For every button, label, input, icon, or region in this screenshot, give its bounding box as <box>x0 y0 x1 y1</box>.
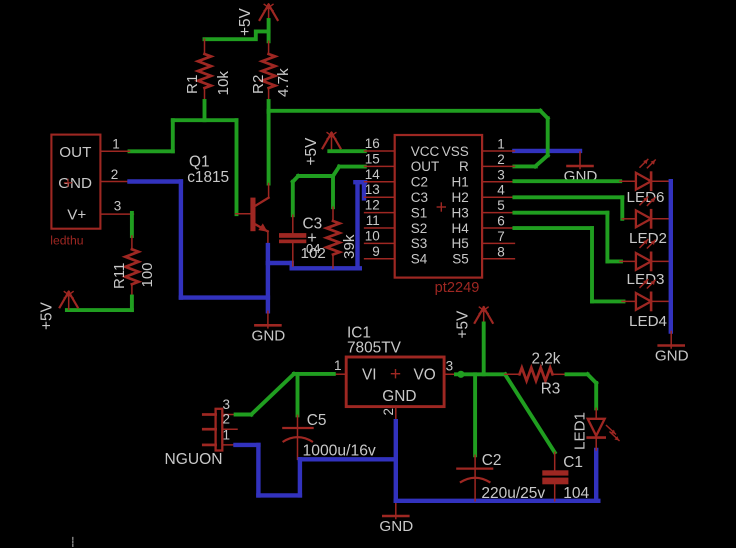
pin 2 pt2249 (right) <box>482 165 515 167</box>
pin 1 IC1 <box>334 373 346 375</box>
LED3 <box>620 260 636 262</box>
pin 1 NGUON stub <box>222 444 237 446</box>
ground GND (bottom) <box>395 502 397 519</box>
svg-text:104: 104 <box>563 485 589 502</box>
svg-text:S2: S2 <box>411 221 428 236</box>
plus mark pt2249 <box>437 206 445 208</box>
svg-text:S5: S5 <box>452 252 469 267</box>
pin 2 ledthu <box>100 181 129 183</box>
svg-text:H2: H2 <box>452 190 469 205</box>
svg-text:100: 100 <box>139 262 156 287</box>
svg-text:VO: VO <box>414 367 436 384</box>
svg-text:C5: C5 <box>307 412 327 429</box>
junction dot <box>457 371 464 378</box>
pin 2 NGUON pad <box>203 428 215 431</box>
svg-text:10: 10 <box>365 228 380 243</box>
svg-text:R2: R2 <box>250 75 267 94</box>
svg-text:C2: C2 <box>411 175 428 190</box>
pin 3 IC1 <box>444 373 459 375</box>
svg-text:GND: GND <box>655 348 689 365</box>
wire pin3 to LED6 <box>514 179 620 183</box>
svg-text:H4: H4 <box>452 221 470 236</box>
svg-text:1: 1 <box>334 358 342 373</box>
wire node to C2 <box>473 374 477 455</box>
wire ledthu pin2 to emitter net (blue) <box>130 179 181 183</box>
svg-text:C2: C2 <box>482 452 502 469</box>
svg-text:GND: GND <box>382 388 416 405</box>
wire emitter bus to C3/39k/pins13-14 (blue) <box>268 261 292 265</box>
resistor R3 2,2k <box>505 373 520 375</box>
LED6 <box>620 180 636 182</box>
svg-text:VI: VI <box>362 367 377 384</box>
svg-text:7: 7 <box>497 229 505 244</box>
wire Q1 emitter to GND (blue) <box>266 245 270 311</box>
svg-text:11: 11 <box>366 213 380 228</box>
wire LED cathodes to GND (blue) <box>669 181 673 331</box>
svg-text:H5: H5 <box>452 236 469 251</box>
pin 9 pt2249 (left) <box>365 258 395 260</box>
pin 16 pt2249 (left) <box>365 150 395 152</box>
svg-text:3: 3 <box>497 167 505 182</box>
svg-text:6: 6 <box>497 214 505 229</box>
svg-text:2: 2 <box>497 152 505 167</box>
svg-text:4.7k: 4.7k <box>275 68 292 97</box>
svg-text:9: 9 <box>372 244 380 259</box>
svg-text:S3: S3 <box>411 236 428 251</box>
svg-text:c1815: c1815 <box>187 169 229 186</box>
LED4 <box>622 300 636 302</box>
svg-text:16: 16 <box>365 136 380 151</box>
wire NGUON pin3 to IC1 pin1 <box>236 413 252 417</box>
wire pin4 to LED2 <box>514 195 622 199</box>
wire IC1 pin3 node <box>456 372 505 376</box>
pin 3 NGUON pad <box>203 413 215 416</box>
wire pin6 to LED4 <box>514 226 592 230</box>
svg-text:R: R <box>459 159 469 174</box>
svg-text:4: 4 <box>497 183 505 198</box>
wire node to C1 (diagonal) <box>505 374 555 452</box>
svg-text:R1: R1 <box>184 75 201 94</box>
wire NGUON pin1 to bottom bus (blue) <box>236 443 259 447</box>
svg-text:pt2249: pt2249 <box>435 280 480 296</box>
svg-text:OUT: OUT <box>411 159 440 174</box>
svg-text:H1: H1 <box>452 175 469 190</box>
svg-text:12: 12 <box>365 198 380 213</box>
power +5V symbol (left) <box>68 293 70 310</box>
wire ledthu pin3 to R11 <box>130 213 134 236</box>
pin 1 NGUON pad <box>203 444 215 447</box>
pin 14 pt2249 (left) <box>365 181 395 183</box>
svg-text:LED1: LED1 <box>572 412 589 450</box>
resistor R1 10k <box>204 39 206 54</box>
svg-text:1: 1 <box>112 137 120 152</box>
connector J1 ledthu body <box>51 135 100 229</box>
wire R2 bottom to Q1 collector <box>267 111 271 184</box>
svg-text:ledthu: ledthu <box>50 234 83 248</box>
wire R2 bottom node to pt2249 pin2 (long top run) <box>267 101 271 112</box>
svg-text:39k: 39k <box>341 234 358 259</box>
svg-text:1000u/16v: 1000u/16v <box>303 443 376 460</box>
pin 5 pt2249 (right) <box>482 212 515 214</box>
wire R1 bottom to Q1 base and ledthu pin1 <box>203 101 207 120</box>
wire pt2249 pin15 to C3/39k <box>339 165 365 169</box>
svg-text:+5V: +5V <box>39 301 56 330</box>
power +5V supply symbol (top) <box>268 6 270 23</box>
svg-text:C3: C3 <box>303 216 323 233</box>
power +5V symbol (IC1 output) <box>483 308 485 325</box>
svg-text:2: 2 <box>111 167 119 182</box>
svg-text:V+: V+ <box>67 207 86 224</box>
ground GND (Q1 emitter) <box>267 311 269 328</box>
svg-text:OUT: OUT <box>59 144 91 161</box>
wire IC1 pin2 to GND (blue) <box>394 421 398 501</box>
wire +5V to output node <box>482 324 486 375</box>
svg-text:1: 1 <box>497 137 505 152</box>
capacitor C3 102 <box>292 215 294 233</box>
svg-text:C3: C3 <box>411 190 428 205</box>
pin 11 pt2249 (left) <box>365 227 395 229</box>
frame origin mark <box>72 538 74 540</box>
pin 2 IC1 <box>395 407 397 422</box>
pin 1 ledthu <box>100 150 129 152</box>
wire to C5 top <box>296 374 300 416</box>
origin cross ledthu <box>65 182 72 184</box>
svg-text:VCC: VCC <box>411 144 440 159</box>
pin 8 pt2249 (right) <box>482 258 515 260</box>
svg-text:220u/25v: 220u/25v <box>481 485 545 502</box>
svg-text:R3: R3 <box>541 381 561 398</box>
pin 4 pt2249 (right) <box>482 196 515 198</box>
LED1 <box>595 408 597 418</box>
svg-text:10k: 10k <box>215 71 232 96</box>
svg-text:C1: C1 <box>563 454 583 471</box>
pin 6 pt2249 (right) <box>482 227 515 229</box>
pin 15 pt2249 (left) <box>365 165 395 167</box>
svg-text:8: 8 <box>497 244 505 259</box>
svg-text:LED3: LED3 <box>627 271 665 288</box>
svg-text:15: 15 <box>365 151 380 166</box>
pin 10 pt2249 (left) <box>365 242 395 244</box>
pin 12 pt2249 (left) <box>365 212 395 214</box>
svg-text:LED4: LED4 <box>629 313 667 330</box>
svg-text:14: 14 <box>365 167 381 182</box>
resistor 39k <box>332 207 334 221</box>
wire pin5 to LED3 <box>514 211 607 215</box>
pin 13 pt2249 (left) <box>365 196 395 198</box>
svg-text:1: 1 <box>223 427 231 442</box>
IC U1 pt2249 body <box>395 135 482 278</box>
svg-text:7805TV: 7805TV <box>347 340 402 357</box>
wire +5V to R1/R2 tops <box>267 20 271 41</box>
ground GND (pt2249 pin1) <box>579 152 581 169</box>
wire +5V to pt2249 pin16 <box>329 149 365 153</box>
plus mark IC1 <box>392 373 400 375</box>
svg-text:S1: S1 <box>411 205 428 220</box>
svg-text:3: 3 <box>114 198 122 213</box>
svg-text:GND: GND <box>379 518 413 535</box>
LED2 <box>622 218 636 220</box>
wire bottom bus (blue) <box>396 499 599 503</box>
svg-text:Q1: Q1 <box>189 154 210 171</box>
svg-text:3: 3 <box>223 397 231 412</box>
resistor R2 4.7k <box>268 41 270 54</box>
svg-text:3: 3 <box>446 358 454 373</box>
svg-text:VSS: VSS <box>442 144 469 159</box>
svg-text:GND: GND <box>58 175 92 192</box>
svg-text:+5V: +5V <box>237 7 254 36</box>
ground GND (LEDs) <box>670 332 672 349</box>
pin 3 NGUON stub <box>222 414 237 416</box>
svg-text:H3: H3 <box>452 205 469 220</box>
wire R3 to LED1 <box>567 372 588 376</box>
svg-text:13: 13 <box>365 182 380 197</box>
svg-text:2,2k: 2,2k <box>532 351 561 368</box>
svg-text:+5V: +5V <box>303 137 320 166</box>
svg-text:LED6: LED6 <box>627 189 665 206</box>
svg-text:R11: R11 <box>111 263 128 289</box>
pin 1 pt2249 (right) <box>482 150 515 152</box>
svg-text:2: 2 <box>381 408 396 416</box>
power +5V symbol (pin16) <box>331 134 333 151</box>
wire R11 bottom to +5V <box>130 297 134 311</box>
svg-text:LED2: LED2 <box>629 230 667 247</box>
svg-text:+5V: +5V <box>455 310 472 339</box>
svg-text:S4: S4 <box>411 252 428 267</box>
svg-text:04: 04 <box>306 241 320 256</box>
pin 2 NGUON stub <box>222 428 237 430</box>
transistor Q1 c1815 <box>250 198 255 232</box>
svg-text:5: 5 <box>497 198 505 213</box>
capacitor C5 1000u/16v <box>297 415 299 428</box>
svg-text:2: 2 <box>223 412 231 427</box>
svg-text:GND: GND <box>252 327 286 344</box>
pin 3 pt2249 (right) <box>482 181 515 183</box>
pin 3 ledthu <box>100 213 133 215</box>
capacitor C2 220u/25v <box>474 455 476 468</box>
connector NGUON body <box>216 409 223 451</box>
wire pt2249 pin1 to GND (blue) <box>514 149 580 153</box>
svg-text:NGUON: NGUON <box>165 451 223 468</box>
IC1 7805TV body <box>346 357 444 407</box>
capacitor C1 104 <box>554 452 556 470</box>
resistor R11 100 <box>131 236 133 249</box>
pin 7 pt2249 (right) <box>482 242 515 244</box>
